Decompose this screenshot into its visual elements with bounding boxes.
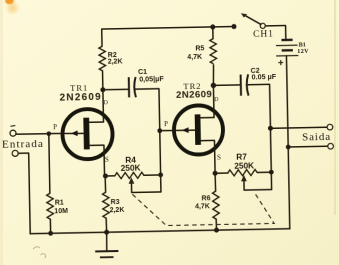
wire TR2 drain to C2 [213, 84, 240, 87]
transistor TR2 2N2609 [159, 85, 224, 174]
svg-text:4,7K: 4,7K [187, 54, 202, 61]
svg-text:2,2K: 2,2K [110, 207, 125, 214]
svg-text:R5: R5 [195, 46, 204, 53]
wire R2 bottom to TR1 drain node [102, 71, 104, 90]
node R1 top [46, 131, 51, 136]
resistor R3 [104, 176, 107, 192]
node TR2 drain [211, 83, 217, 89]
resistor R2 [99, 46, 106, 71]
svg-text:250K: 250K [121, 162, 141, 172]
svg-text:0.05 µF: 0.05 µF [251, 72, 276, 81]
svg-text:10M: 10M [54, 208, 68, 215]
node TR2 gate [157, 128, 162, 133]
capacitor C2 [240, 75, 242, 96]
wire C1 to TR2 gate line [134, 89, 159, 131]
wire switch to battery [265, 26, 286, 40]
resistor R7 250K (pot) [215, 172, 228, 174]
svg-text:R1: R1 [55, 200, 64, 207]
node R7 left / TR2 source [213, 171, 218, 176]
left page edge shading [0, 0, 3, 265]
svg-text:2N2609: 2N2609 [176, 89, 212, 101]
node saida1 [268, 126, 273, 131]
R4 wiper [131, 175, 161, 193]
svg-text:CH1: CH1 [253, 30, 274, 40]
resistor R5 [212, 27, 214, 39]
Entrada input terminals [10, 124, 15, 127]
svg-text:R3: R3 [111, 199, 120, 206]
battery right rail down [286, 56, 289, 229]
R7 wiper [244, 172, 272, 190]
node TR1 source / R4 left [103, 173, 108, 178]
transistor TR1 2N2609 [48, 90, 113, 177]
node ground [104, 230, 109, 235]
svg-text:Entrada: Entrada [2, 138, 44, 151]
svg-text:4,7K: 4,7K [195, 203, 210, 210]
ganged pot dashed link [132, 192, 274, 227]
resistor R1 [49, 134, 50, 194]
svg-text:P: P [53, 123, 57, 131]
resistor R4 250K (pot) [105, 175, 115, 177]
node saida2 on battery rail [286, 145, 291, 150]
bottom rail [30, 229, 290, 234]
svg-text:D: D [104, 100, 108, 106]
node R6 bottom [214, 228, 219, 233]
svg-text:0,05|µF: 0,05|µF [139, 74, 164, 83]
capacitor C1 [128, 77, 130, 97]
svg-text:D: D [214, 97, 218, 103]
svg-text:2,2K: 2,2K [108, 58, 123, 65]
svg-text:P: P [164, 120, 168, 128]
svg-text:S: S [217, 154, 221, 162]
orange smudge top-left [3, 0, 16, 6]
ground [105, 232, 108, 251]
wire gate node down to R4 right [159, 131, 162, 175]
svg-text:250K: 250K [234, 161, 254, 171]
node top rail R5 [210, 24, 215, 29]
svg-text:Saida: Saida [302, 131, 331, 144]
node R1 bottom [48, 231, 53, 236]
pencil scribble bottom-left [33, 247, 46, 258]
battery B1 [281, 39, 292, 42]
svg-text:2N2609: 2N2609 [60, 92, 102, 104]
wire node to C1 [103, 88, 129, 91]
wire to output terminal 1 [270, 127, 326, 128]
svg-text:12V: 12V [297, 48, 309, 55]
svg-text:R6: R6 [202, 195, 211, 202]
faint right edge line [334, 0, 336, 215]
svg-text:S: S [105, 156, 109, 164]
top supply wire [102, 27, 235, 47]
switch CH1 [231, 24, 236, 29]
node TR1 drain [100, 87, 105, 92]
resistor R6 [214, 173, 217, 191]
wire C2 to output rail [247, 84, 271, 172]
